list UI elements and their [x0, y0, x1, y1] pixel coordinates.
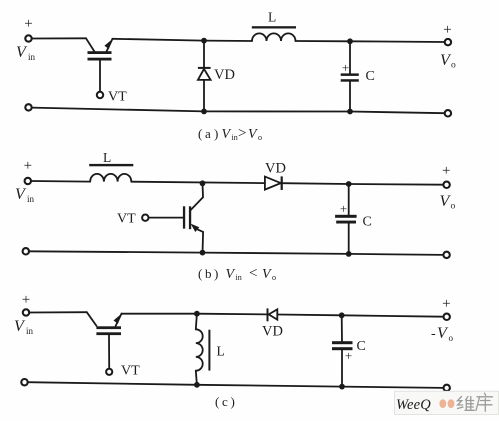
node capacitor top (c): [339, 312, 345, 318]
wire transistor to node (a): [113, 39, 205, 41]
terminal top-right (a): [445, 39, 451, 45]
svg-text:o: o: [272, 273, 276, 282]
svg-text:V: V: [222, 127, 232, 142]
wire node to inductor (a): [204, 40, 252, 42]
transistor VT (a): [86, 38, 113, 98]
caption (c): [215, 394, 235, 409]
svg-text:C: C: [366, 69, 375, 84]
label Vin (b): [15, 186, 35, 204]
svg-text:VT: VT: [121, 364, 140, 379]
label Vo (b): [440, 193, 456, 212]
caption (b): [198, 266, 276, 283]
svg-text:a: a: [205, 126, 211, 141]
watermark WeeQoo text: [396, 397, 431, 413]
bottom rail (c): [28, 382, 444, 388]
watermark wei character: [458, 397, 475, 411]
terminal bottom-left (c): [21, 379, 27, 385]
terminal top-left (c): [23, 309, 29, 315]
svg-text:L: L: [268, 10, 276, 25]
capacitor C (b): [335, 184, 357, 254]
terminal bottom-right (c): [444, 385, 450, 391]
svg-text:+: +: [345, 348, 352, 363]
watermark oo ovals: [439, 399, 454, 408]
bottom rail (a): [32, 108, 445, 114]
transistor VT (c): [87, 312, 122, 375]
svg-text:in: in: [27, 194, 35, 204]
node inductor bottom (c): [194, 382, 200, 388]
svg-text:L: L: [217, 344, 225, 359]
node top-left junction (a): [201, 38, 207, 44]
bottom rail (b): [29, 251, 443, 255]
svg-text:in: in: [232, 133, 238, 142]
svg-text:): ): [231, 394, 235, 409]
terminal top-left (a): [25, 35, 31, 41]
wire node to terminal top-right (a): [350, 40, 445, 43]
svg-text:+: +: [442, 163, 450, 179]
svg-text:+: +: [22, 292, 30, 308]
svg-text:+: +: [342, 60, 349, 75]
node inductor top (c): [194, 311, 200, 317]
svg-text:<: <: [249, 266, 257, 282]
transistor VT (b): [142, 183, 203, 252]
wire diode to terminal top-right (b): [282, 183, 443, 185]
svg-text:+: +: [442, 296, 450, 312]
label Vin (a): [16, 44, 36, 62]
caption (a): [198, 126, 262, 143]
node bottom diode (a): [201, 109, 207, 115]
inductor L (b): [89, 164, 133, 182]
terminal top-right (b): [443, 182, 449, 188]
node capacitor bottom (b): [346, 251, 352, 257]
svg-text:+: +: [24, 158, 32, 174]
svg-text:in: in: [28, 52, 36, 62]
diode VD (a): [198, 41, 211, 112]
svg-text:>: >: [238, 126, 246, 142]
capacitor C (c): [332, 315, 353, 386]
svg-text:in: in: [236, 273, 242, 282]
node capacitor top (a): [347, 38, 353, 44]
label Vo (a): [440, 52, 456, 71]
svg-text:c: c: [222, 394, 228, 409]
inductor L (c): [196, 314, 211, 385]
svg-text:VD: VD: [214, 67, 235, 83]
terminal top-right (c): [444, 314, 450, 320]
node capacitor bottom (a): [347, 109, 353, 115]
svg-text:): ): [214, 126, 218, 141]
svg-text:VD: VD: [262, 324, 283, 340]
wire node to diode (c): [197, 313, 267, 316]
watermark ku character: [476, 393, 493, 411]
wire terminal to transistor (c): [29, 311, 87, 313]
wire inductor to node (a): [296, 40, 351, 42]
svg-text:C: C: [363, 215, 372, 230]
terminal bottom-left (a): [25, 104, 31, 110]
diode VD (c): [267, 308, 278, 321]
svg-text:+: +: [443, 22, 451, 38]
terminal bottom-right (a): [445, 110, 451, 116]
svg-text:in: in: [26, 326, 34, 336]
wire inductor to diode (b): [131, 182, 265, 183]
inductor L (a): [252, 26, 296, 41]
wire terminal to inductor (b): [31, 180, 90, 183]
svg-text:V: V: [248, 127, 258, 142]
label -Vo (c): [431, 325, 454, 343]
terminal top-left (b): [25, 178, 31, 184]
capacitor C (a): [341, 41, 359, 111]
svg-text:WeeQ: WeeQ: [396, 397, 431, 413]
svg-text:+: +: [24, 16, 32, 32]
svg-text:VT: VT: [117, 212, 136, 227]
svg-text:VT: VT: [108, 90, 127, 105]
svg-text:V: V: [262, 267, 272, 282]
svg-text:L: L: [103, 150, 111, 165]
wire top-left (a): [32, 37, 86, 39]
svg-text:o: o: [449, 333, 454, 343]
node capacitor top (b): [346, 181, 352, 187]
svg-text:V: V: [226, 267, 236, 282]
svg-text:(: (: [198, 126, 202, 141]
node transistor top (b): [200, 180, 206, 186]
svg-text:o: o: [451, 202, 456, 212]
svg-text:o: o: [451, 61, 456, 71]
svg-text:-: -: [431, 327, 436, 342]
wire transistor to node (c): [122, 313, 197, 315]
svg-text:): ): [214, 266, 218, 281]
wire diode to terminal top-right (c): [277, 315, 443, 317]
svg-text:o: o: [258, 133, 262, 142]
node transistor bottom (b): [200, 250, 206, 256]
watermark box: [395, 391, 499, 414]
svg-text:VD: VD: [265, 161, 286, 177]
label Vin (c): [14, 318, 34, 336]
svg-text:(: (: [215, 394, 219, 409]
svg-text:+: +: [340, 201, 347, 216]
node capacitor bottom (c): [339, 384, 345, 390]
terminal bottom-left (b): [23, 248, 29, 254]
diode VD (b): [265, 176, 283, 190]
svg-text:(: (: [198, 266, 202, 281]
terminal bottom-right (b): [443, 252, 449, 258]
svg-text:b: b: [205, 266, 212, 281]
svg-text:C: C: [357, 339, 366, 354]
